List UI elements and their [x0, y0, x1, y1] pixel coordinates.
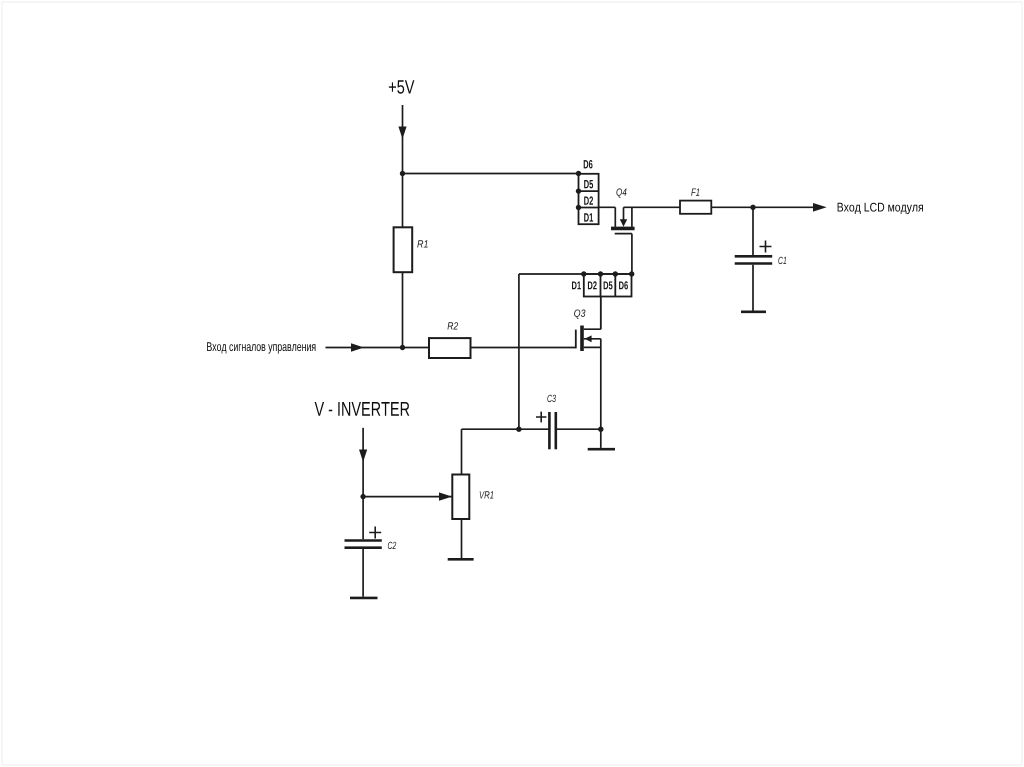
polarity mark + of C3 [536, 412, 546, 423]
node dots on lower bus [581, 271, 586, 276]
wire control input [326, 347, 430, 349]
diode label D1 lower [572, 282, 581, 290]
diode stack lower D2 D5 D6 [584, 274, 632, 297]
wire F1 to output [711, 206, 813, 208]
label V - INVERTER [315, 402, 410, 416]
wire vertical from bus to C3 [518, 274, 520, 429]
diode label D6 lower [619, 281, 628, 289]
node junction dot V-inverter / C2 [360, 494, 365, 499]
diode label D6 top [584, 160, 593, 169]
capacitor C1 [752, 207, 754, 255]
node junction dot input/R1 [400, 345, 405, 350]
node junction dot C1 tee [750, 205, 755, 210]
ground under Q3 [588, 448, 615, 451]
potentiometer VR1 [461, 429, 463, 474]
label C2 [388, 542, 396, 549]
wire V-inverter feed vertical [362, 428, 364, 497]
node junction dot at +5V tee [400, 171, 405, 176]
wire Q4 source to F1 [624, 206, 681, 208]
wire stack to Q4 drain [599, 206, 616, 208]
wire C3 right lead [556, 428, 601, 430]
wire V-inverter arrowhead [359, 450, 367, 463]
label Q4 [616, 188, 626, 197]
node junction dot Q3 source / C3 [598, 427, 603, 432]
wire C1 to ground [752, 265, 754, 311]
wire R1 bottom lead [402, 272, 404, 347]
wire VR1 to ground [461, 519, 463, 558]
node dots on stack left edge [576, 171, 581, 176]
label +5V [389, 80, 415, 93]
ground under C1 [741, 310, 766, 313]
node junction dot C3 left bus [516, 427, 521, 432]
label VR1 [480, 491, 494, 498]
wire +5V feed vertical [402, 105, 404, 174]
label C3 [547, 395, 556, 402]
wire stack to Q3 drain [600, 297, 602, 330]
capacitor C3 [548, 412, 551, 449]
resistor R1 [394, 227, 413, 272]
wire Q3 source to ground [600, 429, 602, 448]
diode stack upper D5 D2 D1 [579, 174, 599, 224]
polarity mark + of C2 [369, 527, 381, 539]
capacitor C2 [362, 497, 364, 540]
ground under C2 [350, 597, 378, 600]
diode label D2 [584, 196, 593, 204]
wire input arrowhead [351, 343, 364, 351]
ground under VR1 [448, 558, 474, 561]
diode label D5 lower [604, 282, 613, 290]
wire R2 to Q3 gate [471, 347, 576, 349]
polarity mark + of C1 [760, 241, 772, 253]
wire output arrowhead [813, 203, 827, 212]
label R2 [448, 322, 459, 329]
node label Вход сигналов управления [207, 342, 315, 353]
wire +5V arrowhead [398, 127, 406, 140]
node label Вход LCD модуля [838, 203, 923, 214]
wire lower horizontal bus [519, 273, 632, 275]
label F1 [691, 189, 699, 196]
diode label D5 [584, 180, 593, 188]
label C1 [778, 257, 786, 264]
wire Q4 gate drop [631, 234, 633, 274]
wire C3 left lead [462, 428, 550, 430]
wire top horizontal to diode stack [403, 173, 579, 175]
wire wiper to VR1 [363, 496, 452, 498]
wire R1 top lead [402, 174, 404, 228]
diode label D2 lower [588, 281, 597, 289]
resistor R2 [429, 338, 471, 358]
label Q3 [574, 310, 585, 319]
transistor Q3 [576, 297, 601, 430]
diode label D1 [584, 213, 593, 221]
transistor Q4 [611, 207, 635, 233]
wire C2 to ground [362, 549, 364, 597]
wire wiper arrowhead [439, 492, 452, 500]
fuse F1 [680, 201, 711, 214]
label R1 [417, 240, 427, 247]
